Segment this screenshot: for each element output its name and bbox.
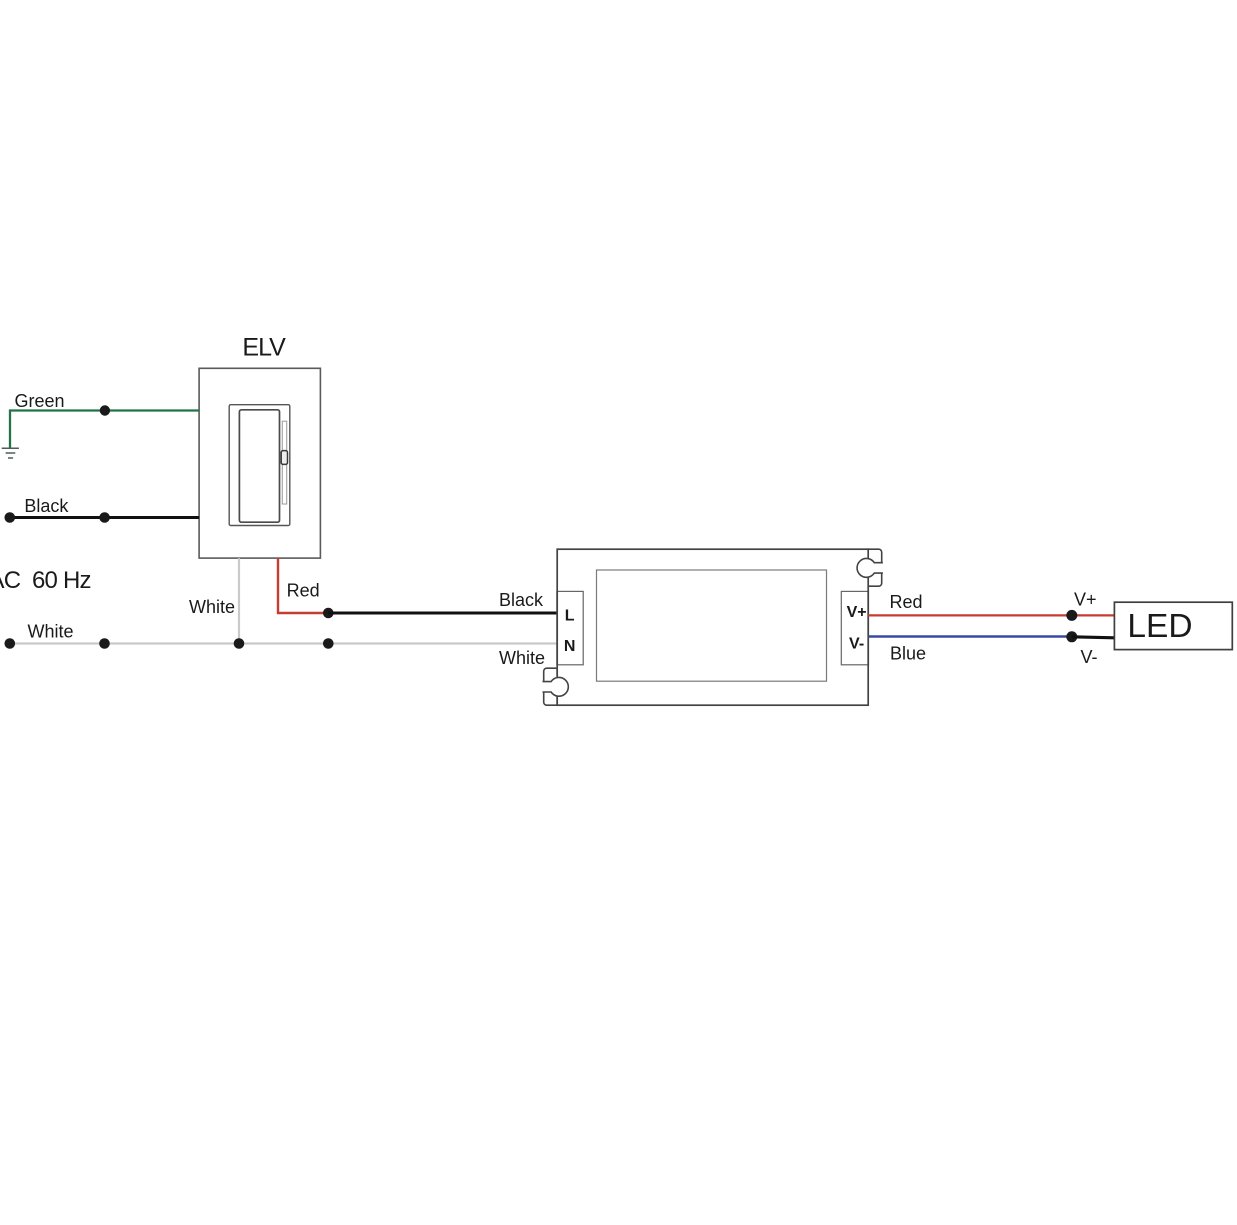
svg-text:V+: V+ (847, 604, 867, 621)
ground (2, 448, 19, 458)
junction white 1 (5, 638, 16, 649)
svg-text:Black: Black (499, 590, 544, 610)
svg-text:V-: V- (849, 636, 864, 653)
wire white vertical (238, 558, 240, 643)
keyhole slot bottom-left (543, 677, 569, 696)
dimmer paddle (239, 410, 279, 522)
wire blue (868, 635, 1072, 638)
junction black mid (99, 512, 110, 523)
terminal block L/N (557, 591, 583, 664)
terminal block V+/V- (841, 591, 868, 664)
wire black upper (10, 516, 199, 519)
LED driver mounting tab bottom-left (544, 668, 558, 705)
driver inner rectangle (597, 570, 827, 681)
dimmer ELV box (199, 368, 320, 558)
junction V- (1066, 631, 1077, 642)
junction on green wire (100, 405, 110, 415)
junction V+ (1066, 610, 1077, 621)
svg-text:White: White (28, 622, 74, 642)
svg-text:ELV: ELV (242, 333, 286, 361)
wire red from dimmer (278, 558, 328, 613)
svg-text:White: White (499, 648, 545, 668)
svg-text:White: White (189, 597, 235, 617)
svg-text:V+: V+ (1074, 590, 1097, 610)
junction white 4 (323, 638, 334, 649)
LED driver case (557, 549, 868, 705)
svg-text:N: N (564, 638, 576, 655)
wire white horizontal (10, 642, 557, 644)
junction black left (5, 512, 16, 523)
LED driver mounting tab top-right (868, 549, 882, 586)
driver case right edge segment (867, 591, 869, 666)
dimmer slider knob (281, 451, 287, 465)
svg-text:Green: Green (15, 391, 65, 411)
svg-text:Blue: Blue (890, 644, 926, 664)
svg-text:AC 60 Hz: AC 60 Hz (0, 567, 91, 594)
wire green (10, 411, 199, 448)
junction white 2 (99, 638, 110, 649)
dimmer slider track (282, 421, 286, 504)
svg-text:L: L (565, 608, 575, 625)
svg-text:Red: Red (287, 581, 320, 601)
wire black to L (328, 611, 557, 614)
dimmer switch frame (229, 405, 290, 526)
svg-text:V-: V- (1081, 647, 1098, 667)
junction white 3 (234, 638, 245, 649)
junction red/black (323, 608, 334, 619)
wire black to LED (1072, 637, 1115, 638)
svg-text:LED: LED (1127, 608, 1192, 645)
driver case left edge segment (556, 591, 558, 666)
keyhole slot top-right (857, 559, 883, 578)
svg-text:Red: Red (890, 592, 923, 612)
svg-text:Black: Black (24, 496, 69, 516)
wire red to LED (868, 614, 1114, 616)
LED box (1114, 602, 1232, 649)
